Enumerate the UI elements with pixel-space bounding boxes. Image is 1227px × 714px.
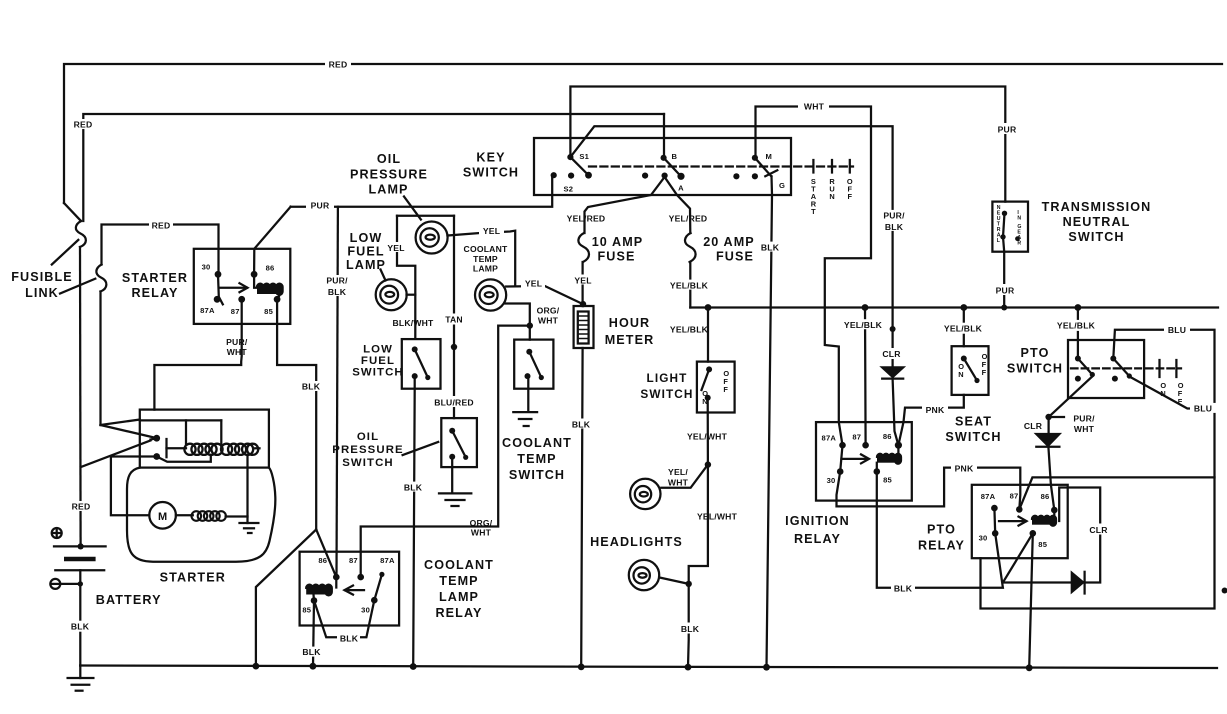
svg-text:10 AMP: 10 AMP — [592, 235, 644, 249]
seat switch box — [952, 346, 989, 395]
starter relay U1 box — [194, 249, 290, 324]
svg-text:TEMP: TEMP — [517, 452, 556, 466]
wire RED battery positive feed — [79, 247, 82, 546]
solenoid inner vertical left — [185, 420, 187, 444]
label BLU/RED — [426, 396, 482, 407]
svg-text:YEL/WHT: YEL/WHT — [697, 512, 738, 522]
label YEL/BLK ignition — [841, 319, 885, 329]
svg-text:CLR: CLR — [882, 349, 901, 359]
label BLK headlights wire — [679, 623, 702, 634]
svg-text:SWITCH: SWITCH — [1007, 362, 1063, 376]
svg-text:SWITCH: SWITCH — [945, 430, 1001, 444]
svg-text:86: 86 — [1041, 492, 1050, 501]
svg-text:PUR: PUR — [996, 285, 1015, 295]
switch contact dots — [412, 346, 418, 352]
svg-text:30: 30 — [361, 605, 370, 614]
svg-text:85: 85 — [302, 605, 311, 614]
label BLU upper — [1164, 324, 1190, 334]
label PUR key switch S2 wire — [306, 200, 334, 210]
svg-text:RED: RED — [152, 221, 171, 231]
wire 10 amp fuse to hour meter — [581, 262, 583, 306]
svg-text:BLU: BLU — [1168, 325, 1186, 335]
svg-text:PUR/: PUR/ — [326, 276, 348, 286]
svg-text:YEL: YEL — [525, 279, 542, 289]
label BLK hour meter wire — [570, 419, 592, 429]
label PUR transmission upper — [995, 123, 1019, 134]
svg-text:F: F — [1178, 397, 1183, 406]
wire oil pressure switch to ground — [451, 457, 453, 493]
PTO switch ON tick — [1158, 360, 1160, 377]
svg-text:PUR/: PUR/ — [883, 211, 905, 221]
wire diagonal to solenoid upper terminal — [101, 425, 155, 438]
key switch S1 arm — [570, 157, 588, 175]
label OIL PRESSURE SWITCH leader — [403, 442, 439, 455]
lower headlight — [629, 560, 659, 590]
svg-text:FUSE: FUSE — [716, 250, 754, 264]
wire TAN oil pressure lamp loop right leg to oil pressure switch — [453, 216, 455, 418]
battery plate short thick — [66, 557, 93, 561]
svg-text:YEL/BLK: YEL/BLK — [670, 280, 709, 290]
label BLK starter relay 85 wire — [302, 381, 322, 391]
svg-text:F: F — [848, 192, 853, 201]
label BLK battery — [69, 621, 92, 632]
PTO relay pin dots — [991, 505, 998, 512]
battery plate long bottom — [55, 569, 104, 571]
solenoid contact bar — [165, 439, 167, 457]
key switch M arm x mark — [765, 170, 777, 176]
svg-text:YEL/BLK: YEL/BLK — [944, 324, 983, 334]
label BLK low fuel switch wire — [402, 482, 424, 492]
battery plate long top — [54, 545, 106, 547]
svg-text:87A: 87A — [200, 306, 215, 315]
wire S1 diagonal to PUR/BLK line — [570, 126, 892, 367]
svg-text:30: 30 — [827, 476, 836, 485]
label CLR ignition diode — [878, 348, 906, 359]
light switch box — [697, 362, 735, 413]
svg-text:PUR/: PUR/ — [1073, 414, 1095, 424]
svg-text:B: B — [672, 152, 678, 161]
label PNK seat — [922, 404, 948, 414]
ignition relay 85 stub — [876, 463, 878, 472]
ground inside starter — [240, 522, 259, 524]
svg-text:STARTER: STARTER — [122, 271, 188, 285]
svg-text:WHT: WHT — [471, 528, 492, 538]
wire YEL/BLK 20 amp fuse to accessory bus — [689, 262, 691, 308]
wire ORG/WHT coolant lamp to coolant temp switch — [505, 304, 530, 340]
wire BLK branch to ground bus — [256, 530, 316, 667]
PTO relay coil — [1032, 516, 1056, 526]
wire diode line to 85 node — [1003, 581, 1072, 583]
wire BLK coolant relay 85 to ground bus — [313, 601, 314, 667]
solenoid lower terminal external wire to motor — [111, 457, 157, 516]
label WHT — [798, 101, 829, 111]
wire B riser — [663, 114, 665, 158]
svg-text:RELAY: RELAY — [435, 606, 482, 620]
junction dots middle section — [451, 344, 457, 350]
starter motor M — [149, 502, 176, 529]
wire diagonal into solenoid inner plate — [101, 420, 140, 426]
svg-text:IGNITION: IGNITION — [785, 514, 850, 528]
fuse 20 amp — [685, 233, 696, 262]
svg-text:PTO: PTO — [1021, 346, 1050, 360]
svg-text:S2: S2 — [564, 185, 574, 194]
svg-text:F: F — [723, 385, 728, 394]
svg-text:R: R — [1017, 241, 1021, 247]
solenoid coil2 stub right — [255, 447, 259, 449]
coolant temp switch arm — [529, 352, 541, 378]
PTO relay arm 87A to 30 — [993, 508, 996, 533]
label PUR transmission lower — [993, 284, 1017, 295]
solenoid coil 1 — [184, 444, 222, 455]
ignition relay pin dots — [839, 442, 846, 449]
PTO relay box — [972, 485, 1068, 558]
svg-text:PUR/: PUR/ — [226, 337, 248, 347]
seat switch arm — [964, 359, 977, 381]
label BLK ignition 85 wire — [891, 583, 915, 593]
svg-text:RELAY: RELAY — [918, 539, 965, 553]
svg-text:WHT: WHT — [1074, 424, 1095, 434]
svg-text:S1: S1 — [579, 152, 589, 161]
wire PUR/WHT starter relay 87 to solenoid — [154, 299, 241, 409]
svg-text:ORG/: ORG/ — [470, 518, 493, 528]
svg-text:HEADLIGHTS: HEADLIGHTS — [590, 535, 683, 549]
svg-text:PNK: PNK — [926, 405, 945, 415]
svg-text:TRANSMISSION: TRANSMISSION — [1042, 200, 1152, 214]
label YEL hour meter feed — [572, 275, 594, 285]
svg-text:86: 86 — [266, 263, 275, 272]
wire main ground bus — [80, 666, 1217, 669]
svg-text:LAMP: LAMP — [346, 258, 386, 272]
label PUR/BLK right — [881, 210, 907, 231]
wire ORG/WHT branch to coolant relay 87 — [361, 326, 530, 577]
transmission switch dots — [1002, 211, 1007, 216]
starter body outline — [127, 468, 275, 562]
svg-text:PUR: PUR — [998, 124, 1017, 134]
svg-text:PNK: PNK — [955, 464, 974, 474]
ignition relay 86 stub — [897, 445, 899, 456]
accessory bus dots — [705, 304, 712, 311]
svg-text:BLK: BLK — [328, 287, 347, 297]
svg-text:METER: METER — [605, 333, 655, 347]
PUR/BLK stray dot — [890, 326, 896, 332]
svg-text:87A: 87A — [981, 492, 996, 501]
wire YEL coolant lamp to hour meter node — [506, 286, 583, 304]
PTO switch OFF tick — [1175, 360, 1177, 377]
svg-text:SWITCH: SWITCH — [509, 468, 565, 482]
wire M riser and WHT line — [756, 107, 872, 446]
key switch B arm — [664, 158, 681, 177]
svg-text:N: N — [958, 370, 963, 379]
svg-text:YEL: YEL — [483, 226, 500, 236]
light switch feed YEL/BLK — [707, 308, 709, 362]
label RED top — [325, 59, 351, 69]
transmission neutral switch contact line — [1003, 213, 1005, 251]
svg-text:BLK: BLK — [302, 382, 321, 392]
svg-text:COOLANT: COOLANT — [464, 244, 508, 254]
key switch RUN tick — [831, 160, 833, 173]
wire fusible link 2 down to starter solenoid — [99, 292, 101, 426]
coolant relay contact line with arrow — [345, 589, 364, 591]
starter relay arm 30 to 87A — [218, 274, 223, 304]
svg-text:BLK: BLK — [404, 482, 423, 492]
ignition relay arm 87A to 30 — [840, 445, 842, 471]
label YEL lamp loop — [384, 242, 407, 252]
label YEL/BLK 20 amp wire — [667, 280, 711, 290]
wire S1 riser — [570, 87, 1005, 202]
fuse 10 amp — [578, 233, 589, 262]
PTO switch pole2 riser BLU — [981, 330, 1215, 609]
hour meter element — [578, 312, 589, 344]
svg-text:ORG/: ORG/ — [537, 306, 560, 316]
PTO relay contact line with arrow — [999, 520, 1026, 522]
svg-text:SEAT: SEAT — [955, 415, 992, 429]
svg-text:YEL: YEL — [387, 243, 404, 253]
PTO switch feed YEL/BLK — [1077, 308, 1079, 359]
oil pressure lamp — [416, 222, 448, 254]
coolant temp lamp relay box — [300, 552, 400, 626]
coolant relay arm 87A to 30 — [374, 574, 382, 600]
svg-text:T: T — [811, 207, 816, 216]
svg-text:YEL/BLK: YEL/BLK — [1057, 321, 1096, 331]
PTO relay 86 stub — [1053, 510, 1055, 519]
label BLU lower — [1190, 403, 1216, 413]
svg-text:BLK: BLK — [71, 622, 90, 632]
svg-text:30: 30 — [202, 263, 211, 272]
ignition relay contact line with arrow — [842, 458, 869, 460]
wire low fuel lamp stub — [407, 294, 416, 296]
PTO switch dashed line — [1071, 367, 1141, 369]
label LOW FUEL LAMP leader — [381, 270, 386, 281]
svg-text:SWITCH: SWITCH — [1068, 230, 1124, 244]
label PUR/BLK — [324, 275, 351, 296]
svg-text:LAMP: LAMP — [368, 183, 408, 197]
label YEL/BLK seat — [941, 323, 985, 334]
svg-text:BATTERY: BATTERY — [96, 593, 162, 607]
CLR loop coil right to diode — [1059, 488, 1100, 583]
wire diagonal from top RED vertical to fusible link — [64, 203, 81, 221]
wire PTO relay 85 to ground bus — [1029, 533, 1033, 668]
svg-text:COOLANT: COOLANT — [502, 436, 572, 450]
svg-text:20 AMP: 20 AMP — [703, 235, 755, 249]
svg-text:LAMP: LAMP — [473, 264, 498, 274]
battery plus symbol — [52, 528, 62, 538]
svg-text:LIGHT: LIGHT — [647, 371, 688, 385]
ignition relay coil — [877, 454, 901, 464]
wire branch from battery RED to starter solenoid — [81, 441, 151, 468]
wire PTO relay 87 node to right edge — [1019, 477, 1214, 509]
coolant relay pin dots — [333, 574, 340, 581]
wire PUR/BLK from PUR line to coolant relay 86 — [337, 207, 338, 577]
wire BLU lower from pole2 to right edge — [1130, 377, 1214, 409]
wire BLK ignition relay 85 to PTO relay 30 — [877, 472, 1003, 588]
solenoid lower terminal internal link — [157, 455, 211, 462]
svg-text:86: 86 — [883, 432, 892, 441]
key switch OFF tick — [849, 160, 851, 173]
wire RED top bus from battery feed to right edge — [64, 64, 1222, 203]
coolant relay coil — [306, 585, 332, 596]
label BLK key switch G wire — [759, 242, 782, 252]
coolant temp lamp — [475, 279, 506, 310]
wire PNK seat switch to ignition relay 86 — [898, 395, 963, 445]
label FUSIBLE LINK leader 1 — [52, 240, 79, 265]
svg-text:YEL/WHT: YEL/WHT — [687, 432, 728, 442]
CLR node dot — [1045, 414, 1051, 420]
svg-text:YEL/RED: YEL/RED — [669, 214, 708, 224]
svg-text:87A: 87A — [822, 434, 837, 443]
svg-text:A: A — [678, 183, 684, 192]
diode CLR in PTO relay loop — [1072, 573, 1083, 592]
wire A to 10 amp fuse — [585, 177, 665, 233]
diode CLR above ignition relay — [882, 367, 903, 377]
svg-text:87: 87 — [1010, 492, 1019, 501]
svg-text:RED: RED — [329, 60, 348, 70]
svg-text:YEL: YEL — [574, 275, 591, 285]
svg-text:SWITCH: SWITCH — [640, 387, 693, 401]
svg-text:87: 87 — [852, 433, 861, 442]
svg-text:KEY: KEY — [476, 151, 505, 165]
wire PUR from relay 86 to key switch S2 — [291, 176, 553, 207]
solenoid bar to coil1 — [167, 447, 187, 449]
label PNK pto — [951, 462, 977, 473]
wire BLK low fuel switch to ground bus — [413, 376, 415, 666]
wire BLK from key switch G to ground bus — [767, 176, 773, 667]
coolant temp switch box — [514, 340, 553, 389]
key switch terminal dots — [567, 154, 573, 160]
battery minus symbol — [50, 579, 60, 589]
svg-text:BLK/WHT: BLK/WHT — [392, 318, 434, 328]
light switch arm — [702, 369, 710, 390]
starter motor inductor — [176, 514, 193, 516]
right edge spot mark — [1222, 588, 1227, 594]
svg-text:LAMP: LAMP — [439, 590, 479, 604]
starter relay coil — [257, 284, 283, 295]
wire RED to starter relay 30 — [102, 225, 219, 275]
label YEL/BLK pto — [1054, 320, 1098, 331]
label TAN — [441, 314, 467, 325]
seat switch feed — [963, 308, 965, 347]
wire YEL/WHT light switch to headlights — [688, 398, 708, 667]
label RED second — [71, 119, 95, 129]
solenoid inner top line — [140, 419, 222, 421]
svg-text:OIL: OIL — [357, 431, 379, 443]
wire loop over oil pressure lamp — [397, 215, 454, 217]
svg-text:N: N — [1160, 389, 1165, 398]
solenoid terminal stub upper — [151, 438, 157, 439]
svg-text:WHT: WHT — [668, 478, 689, 488]
svg-text:87A: 87A — [380, 556, 395, 565]
svg-text:CLR: CLR — [1024, 421, 1043, 431]
PTO switch pole2 arm — [1113, 359, 1129, 377]
key switch box — [534, 138, 791, 195]
ignition relay box — [816, 422, 912, 501]
label YEL coolant lamp wire — [521, 278, 545, 288]
label OIL PRESSURE LAMP leader — [404, 197, 421, 220]
svg-text:LINK: LINK — [25, 286, 59, 300]
svg-text:NEUTRAL: NEUTRAL — [1063, 215, 1131, 229]
wire BLK branch to coolant relay 86 — [316, 530, 336, 578]
wire CLR node through diode to PTO relay 86 — [1047, 417, 1049, 434]
diode CLR above PTO relay — [1036, 434, 1059, 446]
svg-text:YEL/BLK: YEL/BLK — [670, 325, 709, 335]
PTO switch pole1 arm — [1078, 359, 1092, 375]
svg-text:PTO: PTO — [927, 523, 956, 537]
wire PTO relay 85 to diode line — [1003, 533, 1033, 582]
wire PUR transmission switch to accessory bus — [1003, 252, 1005, 308]
label BLK coolant relay jumper — [337, 633, 360, 643]
svg-text:WHT: WHT — [804, 102, 825, 112]
svg-text:RELAY: RELAY — [794, 532, 841, 546]
wire YEL/BLK accessory bus to ignition relay 87 — [864, 308, 867, 446]
wire BLK jumper 85 to 30 — [314, 601, 338, 638]
upper headlight — [630, 479, 660, 509]
coolant relay coil stubs — [335, 577, 337, 587]
svg-text:M: M — [158, 511, 167, 523]
svg-text:FUEL: FUEL — [347, 245, 384, 259]
svg-text:YEL/RED: YEL/RED — [567, 214, 606, 224]
svg-text:86: 86 — [318, 556, 327, 565]
svg-text:BLU: BLU — [1194, 404, 1212, 414]
svg-text:FUSIBLE: FUSIBLE — [11, 270, 73, 284]
label RED battery — [69, 501, 93, 511]
svg-text:RELAY: RELAY — [131, 286, 178, 300]
svg-text:HOUR: HOUR — [609, 316, 650, 330]
key switch START tick — [812, 160, 814, 173]
solenoid inner vertical right — [220, 420, 222, 446]
oil pressure switch box — [441, 418, 477, 467]
wire accessory bus — [690, 306, 1218, 308]
svg-text:SWITCH: SWITCH — [342, 457, 394, 469]
svg-text:WHT: WHT — [538, 316, 559, 326]
svg-text:SWITCH: SWITCH — [463, 166, 519, 180]
svg-text:85: 85 — [264, 307, 273, 316]
svg-text:85: 85 — [883, 475, 892, 484]
svg-text:LOW: LOW — [363, 344, 393, 356]
ground battery — [79, 666, 81, 679]
label RED relay feed — [149, 220, 173, 230]
svg-text:87: 87 — [231, 307, 240, 316]
wire YEL oil lamp to key switch S2 line — [448, 231, 516, 286]
label FUSIBLE LINK leader 2 — [60, 279, 95, 294]
headlight branch dots — [705, 461, 711, 467]
svg-text:TEMP: TEMP — [473, 254, 498, 264]
wire coil2 down to motor node — [246, 455, 248, 523]
svg-text:CLR: CLR — [1089, 525, 1108, 535]
wire diode to ignition relay 86 — [893, 379, 899, 446]
svg-text:BLK: BLK — [885, 222, 904, 232]
svg-text:BLU/RED: BLU/RED — [434, 398, 474, 408]
svg-text:BLK: BLK — [681, 624, 700, 634]
svg-text:85: 85 — [1038, 540, 1047, 549]
svg-text:OIL: OIL — [377, 152, 401, 166]
wire battery negative to ground bus — [79, 570, 81, 665]
svg-text:PUR: PUR — [311, 201, 330, 211]
wire YEL/WHT branch upper headlight — [661, 465, 708, 488]
svg-text:TEMP: TEMP — [439, 574, 478, 588]
svg-text:BLK: BLK — [302, 647, 321, 657]
lower headlight stub — [660, 578, 689, 584]
wire coolant temp switch to ground — [527, 376, 529, 411]
seat switch dots — [961, 356, 967, 362]
svg-text:FUEL: FUEL — [361, 355, 395, 367]
svg-text:PRESSURE: PRESSURE — [350, 168, 428, 182]
wire A to 20 amp fuse — [665, 177, 691, 233]
svg-text:RED: RED — [72, 502, 91, 512]
low fuel switch arm — [415, 349, 428, 377]
wire step from lamps loop to low fuel switch — [397, 216, 415, 339]
key switch M arm — [755, 158, 771, 177]
svg-text:LOW: LOW — [350, 231, 383, 245]
svg-text:M: M — [766, 152, 773, 161]
